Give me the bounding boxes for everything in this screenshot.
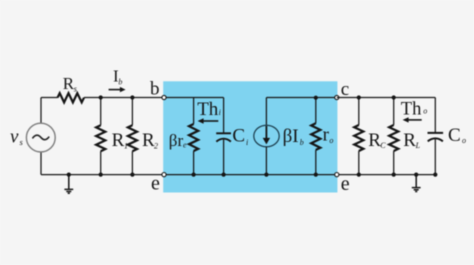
resistor R1 bbox=[96, 95, 105, 176]
svg-text:v: v bbox=[10, 126, 19, 147]
label Co bbox=[448, 125, 466, 146]
wire top rail segment: current source to node c bbox=[266, 97, 336, 99]
svg-text:i: i bbox=[219, 108, 221, 117]
svg-text:Th: Th bbox=[197, 99, 219, 120]
svg-text:βr: βr bbox=[169, 131, 184, 150]
dependent current source beta-Ib bbox=[254, 98, 279, 177]
svg-text:b: b bbox=[150, 79, 160, 100]
svg-text:o: o bbox=[423, 107, 427, 116]
current Ib arrow bbox=[109, 66, 126, 92]
wire source bottom to bottom rail bbox=[40, 152, 42, 175]
capacitor Co bbox=[428, 98, 444, 177]
svg-text:e: e bbox=[341, 173, 350, 195]
svg-text:R: R bbox=[403, 130, 416, 151]
svg-text:C: C bbox=[448, 125, 461, 146]
capacitor Ci bbox=[216, 98, 231, 177]
node e open circle (left) bbox=[162, 173, 166, 177]
label beta-r_e bbox=[169, 131, 187, 150]
svg-text:s: s bbox=[74, 84, 77, 93]
svg-text:C: C bbox=[232, 126, 245, 147]
wire top-left vertical from source to top rail bbox=[40, 98, 42, 124]
svg-text:o: o bbox=[329, 136, 333, 145]
highlight box (transistor model region) bbox=[163, 81, 337, 192]
resistor r_o bbox=[311, 96, 320, 177]
node e open circle (right) bbox=[335, 173, 339, 177]
svg-text:L: L bbox=[415, 141, 421, 150]
label r_o bbox=[323, 125, 334, 146]
label R2 bbox=[142, 130, 158, 151]
ground (right) bbox=[412, 173, 421, 192]
svg-text:e: e bbox=[151, 172, 160, 194]
label vs bbox=[10, 126, 24, 147]
ground (left) bbox=[64, 173, 73, 194]
voltage source vs bbox=[26, 123, 55, 152]
wire top rail node c to Co bbox=[337, 97, 436, 99]
node c open circle bbox=[335, 95, 339, 99]
resistor R2 bbox=[128, 95, 137, 176]
resistor Rs bbox=[58, 93, 85, 102]
svg-text:i: i bbox=[246, 138, 248, 147]
resistor RC bbox=[354, 95, 363, 176]
label R1 bbox=[112, 130, 128, 151]
wire bottom rail bbox=[41, 174, 435, 176]
resistor RL bbox=[389, 95, 398, 176]
wire top rail Rs to node b bbox=[84, 97, 164, 99]
label Th_i with arrow bbox=[197, 99, 221, 124]
svg-text:R: R bbox=[112, 130, 125, 151]
label RC bbox=[368, 130, 386, 151]
svg-text:C: C bbox=[380, 141, 386, 150]
svg-text:o: o bbox=[462, 136, 466, 145]
svg-text:b: b bbox=[118, 77, 122, 86]
svg-text:2: 2 bbox=[154, 142, 158, 151]
svg-text:e: e bbox=[183, 141, 187, 150]
resistor beta-r_e bbox=[189, 98, 198, 177]
wire top rail left bbox=[41, 97, 58, 99]
svg-text:βI: βI bbox=[283, 126, 299, 147]
svg-text:Th: Th bbox=[401, 99, 422, 119]
label beta-Ib bbox=[283, 126, 304, 147]
svg-text:1: 1 bbox=[124, 142, 128, 151]
label Rs bbox=[63, 74, 77, 93]
label Th_o with arrow bbox=[401, 99, 427, 122]
wire top rail inside box: b to Ci corner bbox=[164, 97, 224, 99]
label Ci bbox=[232, 126, 248, 147]
svg-text:c: c bbox=[341, 79, 349, 100]
node b open circle bbox=[162, 95, 166, 99]
svg-text:b: b bbox=[300, 138, 304, 147]
label RL bbox=[403, 130, 420, 151]
